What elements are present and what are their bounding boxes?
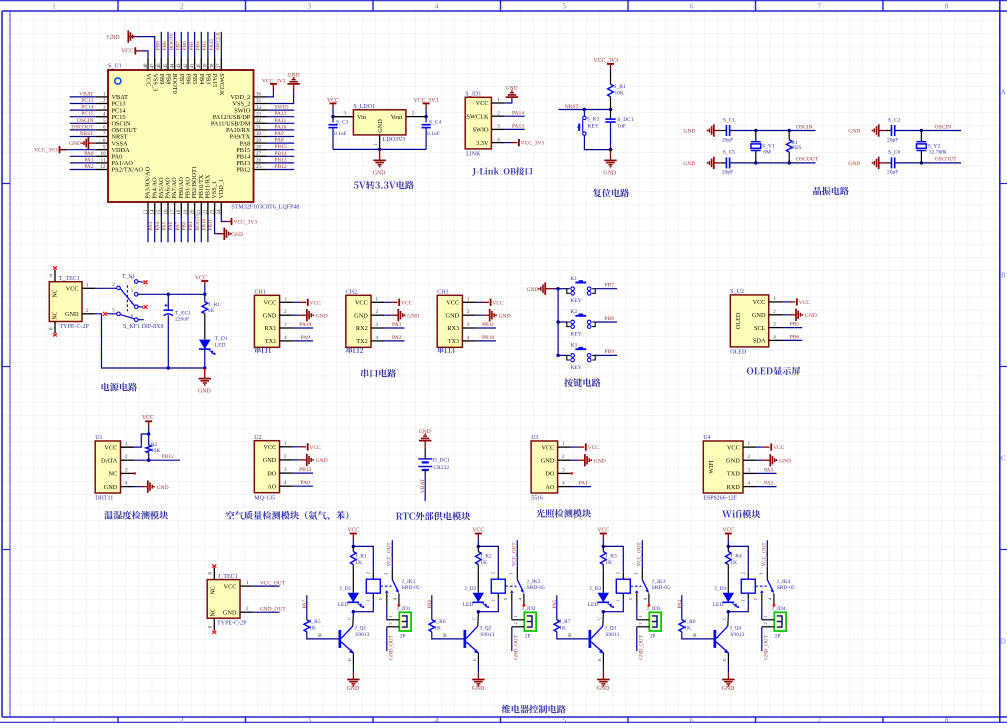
connector CH2 body xyxy=(346,295,371,347)
svg-text:PA9: PA9 xyxy=(274,131,284,137)
svg-text:VCC: VCC xyxy=(722,527,734,533)
U1 pin 42 PB6 xyxy=(187,57,189,70)
U3 pin 4 AO xyxy=(558,486,571,488)
U1 pin 25 PB12 xyxy=(254,169,267,171)
svg-text:VCC_OUT: VCC_OUT xyxy=(511,542,517,567)
U1 pin 24 VDD_1 xyxy=(220,202,222,215)
svg-text:CR232: CR232 xyxy=(434,465,450,471)
svg-text:5: 5 xyxy=(562,2,566,10)
S_U2 pin 2 GND xyxy=(769,314,782,316)
wire net GND_OUT xyxy=(252,611,279,613)
JD1 pin 3 SWIO xyxy=(491,128,504,130)
svg-text:GND: GND xyxy=(597,686,610,692)
wire relay common xyxy=(516,540,518,566)
connector S_U2 OLED body xyxy=(730,295,768,347)
svg-text:20pF: 20pF xyxy=(722,137,733,143)
svg-text:Vout: Vout xyxy=(391,114,403,121)
wire net PA3 xyxy=(756,472,776,474)
connector CH1 body xyxy=(254,295,279,347)
transistor J_Q3 S9013 xyxy=(589,630,592,648)
power VCC at CH2 pin 1 xyxy=(384,301,391,303)
wire net PA13 xyxy=(505,128,525,130)
wire OSCIN row xyxy=(730,130,816,132)
CH1 pin 4 TX1 xyxy=(280,340,293,342)
svg-text:RX1: RX1 xyxy=(264,325,276,332)
connector T_TEC1 TYPE-C body xyxy=(49,282,82,322)
svg-text:KEY: KEY xyxy=(570,332,581,338)
svg-text:22: 22 xyxy=(204,209,209,215)
LDO pin 2 xyxy=(406,116,426,118)
svg-text:GND: GND xyxy=(726,457,740,464)
wire OSCOUT row xyxy=(895,162,961,164)
svg-text:10K: 10K xyxy=(615,90,625,96)
svg-text:4: 4 xyxy=(435,2,439,10)
svg-text:S_C5: S_C5 xyxy=(723,150,735,156)
wire net PA1 xyxy=(70,162,96,164)
svg-text:AO: AO xyxy=(267,483,277,490)
svg-text:J_R2: J_R2 xyxy=(480,554,492,560)
pushbutton K3 KEY xyxy=(556,354,559,357)
svg-text:PB10: PB10 xyxy=(482,335,494,341)
pushbutton K1 KEY xyxy=(556,287,559,290)
capacitor S_C5 20pF xyxy=(721,162,727,164)
svg-text:D_DC1: D_DC1 xyxy=(433,458,450,464)
svg-text:VCC_3V3: VCC_3V3 xyxy=(593,58,618,64)
power VCC_3V3 at U1 pin 24 VDD_1 xyxy=(221,215,226,222)
svg-text:PB8: PB8 xyxy=(162,41,168,50)
relay contact 5 xyxy=(386,593,388,603)
LED J_D1 xyxy=(348,593,360,603)
svg-text:PC15: PC15 xyxy=(81,111,93,117)
resistor J_R4 1K xyxy=(727,546,729,551)
T_S1 contact 6 xyxy=(134,318,138,322)
svg-text:D: D xyxy=(1001,638,1006,646)
wire OSCOUT row xyxy=(730,162,816,164)
svg-text:2: 2 xyxy=(180,2,184,10)
caption light detection module xyxy=(536,509,591,518)
svg-text:GND: GND xyxy=(604,170,617,176)
wire ground bus under LDO xyxy=(333,148,426,150)
connector U2 MQ-135 body xyxy=(254,441,279,493)
svg-text:K1: K1 xyxy=(570,276,577,282)
U1 pin 44 BOOT0 xyxy=(174,57,176,70)
svg-text:26: 26 xyxy=(256,159,262,164)
resistor J_R6 1K xyxy=(429,620,435,632)
svg-text:VCC_OUT: VCC_OUT xyxy=(260,580,286,586)
svg-text:NRST: NRST xyxy=(565,104,580,110)
svg-text:GND: GND xyxy=(377,119,384,133)
U1 pin 21 PB10/TX xyxy=(200,202,202,215)
wire net PA8 xyxy=(267,142,294,144)
svg-text:GND: GND xyxy=(223,609,237,616)
T_S1 blade upper xyxy=(120,289,134,306)
svg-text:BOOT0: BOOT0 xyxy=(171,74,178,94)
wire net PB9 xyxy=(160,32,162,58)
J_JD1 pin 2 xyxy=(387,626,400,628)
J_JD4 pin 1 xyxy=(762,619,775,621)
svg-text:1K: 1K xyxy=(730,560,737,566)
svg-text:PB5: PB5 xyxy=(189,41,195,50)
svg-text:S_C1: S_C1 xyxy=(723,117,735,123)
svg-text:PA0: PA0 xyxy=(84,151,94,157)
svg-text:GND: GND xyxy=(288,72,300,78)
comment serial port 2 xyxy=(346,347,363,353)
U1 pin 9 VDDA xyxy=(96,149,108,151)
svg-text:S_Y1: S_Y1 xyxy=(762,143,775,149)
wire net PB3 xyxy=(207,32,209,58)
wire contact 5 to J_JD3 pin 1 xyxy=(636,604,638,620)
ground relay channel 1 xyxy=(352,673,354,680)
svg-text:LINK: LINK xyxy=(466,152,481,158)
svg-text:VCC: VCC xyxy=(799,300,811,306)
wire net PB6 xyxy=(782,339,802,341)
T_S1 blade lower xyxy=(120,314,134,319)
U1 pin 1 VCC xyxy=(121,446,134,448)
svg-text:8M: 8M xyxy=(763,150,771,156)
svg-text:CH3: CH3 xyxy=(437,290,448,296)
svg-text:28: 28 xyxy=(256,145,262,150)
svg-text:PC13: PC13 xyxy=(81,98,93,104)
svg-text:VCC_OUT: VCC_OUT xyxy=(386,542,392,567)
svg-text:GND: GND xyxy=(316,313,328,319)
ground at U2 pin 2 xyxy=(293,459,300,461)
U1 pin 23 VSS_1 xyxy=(214,202,216,215)
svg-text:LED: LED xyxy=(338,602,349,608)
crystal S_Y2 32.768k xyxy=(920,129,923,132)
svg-text:VCC_3V3: VCC_3V3 xyxy=(521,141,545,147)
ground relay channel 3 xyxy=(602,673,604,680)
svg-text:20: 20 xyxy=(190,209,195,215)
wire to relay coil xyxy=(603,546,623,572)
svg-text:31: 31 xyxy=(256,126,262,131)
wire pin1 to switch xyxy=(95,287,116,289)
wire transistor emitter xyxy=(477,653,479,665)
LED J_D2 xyxy=(473,593,485,603)
svg-text:J_JD3: J_JD3 xyxy=(647,606,661,612)
power VCC at U3 pin 1 xyxy=(571,446,578,448)
svg-text:0.1uF: 0.1uF xyxy=(334,131,347,137)
U1 pin 33 PA12/USB/DP xyxy=(254,116,267,118)
wire LED to ground bus xyxy=(204,349,206,368)
svg-text:PA14: PA14 xyxy=(512,110,524,116)
svg-text:PA10: PA10 xyxy=(299,322,311,328)
wire base resistor to base xyxy=(307,632,339,639)
relay dashed linkage xyxy=(755,585,766,587)
U1 pin 39 PB3 xyxy=(207,57,209,70)
wire net BOOT0 xyxy=(174,32,176,58)
svg-text:C: C xyxy=(472,617,477,620)
caption 5V to 3.3V circuit xyxy=(354,181,414,190)
power VCC_3V3 at JD1 pin 4 xyxy=(505,142,511,144)
pushbutton K2 KEY xyxy=(556,320,559,323)
power VCC at CH3 pin 1 xyxy=(476,301,483,303)
svg-text:VCC: VCC xyxy=(401,300,413,306)
svg-text:S_C2: S_C2 xyxy=(888,117,900,123)
wire Vout to VCC_3V3 xyxy=(425,108,427,117)
connector S_JD1 J-Link body xyxy=(465,97,491,149)
svg-text:VCC: VCC xyxy=(588,445,600,451)
wire to relay coil xyxy=(478,546,498,572)
svg-text:PB11: PB11 xyxy=(482,322,494,328)
no connect at U3 pin 3 xyxy=(571,472,574,475)
wire net PB13 xyxy=(267,162,294,164)
svg-text:GND: GND xyxy=(69,141,81,147)
wire net PA9 xyxy=(267,136,294,138)
svg-text:S_K1: S_K1 xyxy=(587,116,600,122)
svg-text:GND: GND xyxy=(499,313,511,319)
T_TEC1 shield stub bottom xyxy=(54,322,56,334)
wire base resistor to base xyxy=(432,632,464,639)
wire net PB13 xyxy=(293,472,313,474)
T_S1 contact 5 xyxy=(117,312,121,316)
wire net GND_OUT xyxy=(636,627,638,651)
svg-text:GND: GND xyxy=(407,313,419,319)
wire from key to ground bus xyxy=(584,135,610,149)
S_U2 pin 4 SDA xyxy=(769,339,782,341)
svg-text:PB1: PB1 xyxy=(188,221,194,230)
svg-text:GND: GND xyxy=(231,232,243,238)
svg-text:VCC: VCC xyxy=(66,286,79,293)
wire coil to LED cathode xyxy=(497,593,499,600)
svg-text:GND: GND xyxy=(805,313,817,319)
svg-text:35: 35 xyxy=(256,99,262,104)
resistor T_R1 1K xyxy=(204,294,206,302)
svg-text:PB6: PB6 xyxy=(182,41,188,50)
svg-text:39: 39 xyxy=(204,63,209,69)
svg-text:PB5: PB5 xyxy=(790,322,800,328)
svg-text:SDA: SDA xyxy=(753,338,766,345)
wire net VCC_OUT xyxy=(252,585,279,587)
svg-text:VCC: VCC xyxy=(446,300,459,307)
svg-text:PA1: PA1 xyxy=(579,481,589,487)
power VCC at U1 pin 48 xyxy=(142,51,149,57)
caption key circuit xyxy=(564,378,600,387)
wire net PC13 xyxy=(70,103,96,105)
svg-text:1K: 1K xyxy=(355,560,362,566)
no connect x at contact 1 xyxy=(144,280,148,284)
transistor J_Q2 S9013 xyxy=(464,630,467,648)
comment serial port 3 xyxy=(438,347,455,353)
U1 pin 16 PA6/AO xyxy=(167,202,169,215)
svg-text:7: 7 xyxy=(817,717,821,724)
power VCC at U4 pin 1 xyxy=(756,446,763,448)
ground at U1 pin 35 VSS_2 xyxy=(267,91,294,104)
svg-text:VCC: VCC xyxy=(263,300,276,307)
svg-text:B: B xyxy=(693,633,697,639)
svg-text:J_R6: J_R6 xyxy=(434,619,446,625)
svg-text:1: 1 xyxy=(52,2,56,10)
svg-text:11: 11 xyxy=(101,159,106,164)
U1 pin 26 PB13 xyxy=(254,162,267,164)
svg-text:18: 18 xyxy=(177,209,182,215)
svg-text:OSCIN: OSCIN xyxy=(796,124,813,130)
JD1 pin 1 VCC xyxy=(491,102,504,104)
capacitor S_C3 0.1uF xyxy=(332,117,334,123)
CH2 pin 2 GND xyxy=(371,314,384,316)
wire net PB1 xyxy=(187,215,189,242)
svg-text:S_Y2: S_Y2 xyxy=(928,143,941,149)
svg-text:PA2: PA2 xyxy=(764,481,774,487)
wire LED to transistor collector xyxy=(477,612,479,616)
wire contact 5 stub xyxy=(107,313,117,315)
U1 pin 36 VDD_2 xyxy=(254,96,267,98)
capacitor S_DC1 1uF xyxy=(610,110,612,120)
caption J-Link OB interface xyxy=(472,167,532,176)
U1 pin 10 PA0 xyxy=(96,155,108,157)
svg-text:OSCIN: OSCIN xyxy=(935,124,952,130)
CH1 pin 1 VCC xyxy=(280,301,293,303)
resistor S_R1 10K xyxy=(608,84,614,97)
svg-text:4: 4 xyxy=(435,717,439,724)
wire net PB5 xyxy=(782,327,802,329)
wire pin2 to ground bus xyxy=(95,314,205,368)
wire net PA15 xyxy=(214,32,216,58)
svg-text:J_D1: J_D1 xyxy=(340,586,352,592)
svg-text:SWCLK: SWCLK xyxy=(218,74,225,96)
svg-text:VCC: VCC xyxy=(727,444,740,451)
CH2 pin 1 VCC xyxy=(371,301,384,303)
svg-text:TXD: TXD xyxy=(727,471,740,478)
ground at JD1 pin 1 xyxy=(505,97,512,103)
svg-text:19: 19 xyxy=(184,209,189,215)
relay dashed linkage xyxy=(630,585,641,587)
U1 pin 4 GND xyxy=(121,486,134,488)
pushbutton S_K1 KEY xyxy=(583,116,586,119)
svg-text:SRD-05: SRD-05 xyxy=(652,585,670,591)
wire to relay coil xyxy=(353,546,373,572)
svg-text:PB3: PB3 xyxy=(202,41,208,50)
U1 pin 3 PC14 xyxy=(96,109,108,111)
svg-text:RX2: RX2 xyxy=(356,325,368,332)
svg-text:2P: 2P xyxy=(775,633,781,639)
wire LED to transistor collector xyxy=(602,612,604,616)
svg-text:OLED: OLED xyxy=(735,312,742,329)
wire net PA3 xyxy=(147,215,149,242)
wire VCC to Vin xyxy=(333,108,353,117)
svg-text:PB10: PB10 xyxy=(202,219,208,231)
svg-text:K2: K2 xyxy=(570,309,577,315)
svg-text:8: 8 xyxy=(945,2,949,10)
wire net PA10 xyxy=(293,327,313,329)
svg-text:3.3V: 3.3V xyxy=(476,140,489,147)
caption serial circuit xyxy=(361,369,396,377)
wire to key xyxy=(583,110,585,117)
svg-text:GND: GND xyxy=(594,458,606,464)
svg-text:PA2: PA2 xyxy=(392,335,402,341)
svg-text:S_DC1: S_DC1 xyxy=(617,117,633,123)
LED J_D4 xyxy=(723,593,735,603)
svg-text:S_R1: S_R1 xyxy=(614,84,626,90)
svg-text:NC: NC xyxy=(53,289,59,297)
caption air quality module xyxy=(226,511,349,520)
svg-text:1K: 1K xyxy=(480,560,487,566)
resistor J_R5 1K xyxy=(304,620,310,632)
svg-text:15: 15 xyxy=(157,209,162,215)
svg-text:0.1uF: 0.1uF xyxy=(427,131,440,137)
svg-text:LED: LED xyxy=(713,602,724,608)
svg-text:PA8: PA8 xyxy=(274,138,284,144)
svg-text:T_R1: T_R1 xyxy=(208,302,221,308)
svg-text:GND_OUT: GND_OUT xyxy=(260,606,287,612)
svg-text:U1: U1 xyxy=(95,435,102,441)
svg-text:T_D1: T_D1 xyxy=(215,336,228,342)
J_JD3 pin 1 xyxy=(637,619,650,621)
svg-text:J_D4: J_D4 xyxy=(715,586,727,592)
svg-text:43: 43 xyxy=(177,63,182,69)
U3 pin 1 VCC xyxy=(558,446,571,448)
battery D_DC1 CR232 xyxy=(424,447,426,459)
svg-text:SWCLK: SWCLK xyxy=(467,113,489,120)
caption relay control circuit xyxy=(502,705,566,714)
svg-text:20pF: 20pF xyxy=(722,170,733,176)
JD1 pin 4 3.3V xyxy=(491,142,504,144)
wire coil to LED cathode xyxy=(372,593,374,600)
U1 pin 19 PB1/AO xyxy=(187,202,189,215)
svg-text:41: 41 xyxy=(190,63,195,69)
wire coil to LED cathode xyxy=(747,593,749,600)
wire contact 3 to VCC rail xyxy=(138,293,205,295)
wire net PA0 xyxy=(70,155,96,157)
svg-text:VCC: VCC xyxy=(121,49,133,55)
svg-text:KEY: KEY xyxy=(570,298,581,304)
power VCC at U2 pin 1 xyxy=(293,446,300,448)
svg-text:13: 13 xyxy=(144,209,149,215)
U1 pin 8 VSSA xyxy=(96,142,108,144)
svg-text:PA6: PA6 xyxy=(427,599,433,608)
svg-text:47: 47 xyxy=(151,63,156,69)
svg-text:WIFI: WIFI xyxy=(708,460,715,473)
svg-text:CH1: CH1 xyxy=(254,290,265,296)
wire net PB8 xyxy=(595,321,617,323)
wire net PA5 xyxy=(160,215,162,242)
svg-text:44: 44 xyxy=(170,63,175,69)
wire net PB11 xyxy=(207,215,209,242)
T_S1 contact 1 xyxy=(134,280,138,284)
svg-text:S9013: S9013 xyxy=(730,632,744,638)
svg-text:S_U1: S_U1 xyxy=(108,64,122,70)
U1 pin 14 PA4/AO xyxy=(154,202,156,215)
svg-text:PA3: PA3 xyxy=(764,467,774,473)
svg-text:17: 17 xyxy=(170,209,175,215)
svg-text:GND: GND xyxy=(65,311,79,318)
T_TEC1 shield stub top xyxy=(54,270,56,282)
svg-text:J_R3: J_R3 xyxy=(605,554,617,560)
resistor J_R2 1K xyxy=(477,546,479,551)
wire net PB8 xyxy=(167,32,169,58)
svg-text:VCC: VCC xyxy=(224,583,237,590)
caption wifi module xyxy=(722,510,760,519)
svg-text:J_D3: J_D3 xyxy=(590,586,602,592)
svg-text:R2: R2 xyxy=(151,442,158,448)
wire contact 5 to J_JD1 pin 1 xyxy=(386,604,388,620)
svg-text:VCC: VCC xyxy=(753,299,766,306)
relay contact 4 xyxy=(648,593,650,604)
ground at U1 pin 8 VSSA xyxy=(88,142,95,144)
U1 pin 12 PA2/TX/AO xyxy=(96,169,108,171)
T_S1 contact 4 xyxy=(134,305,138,309)
svg-text:OLED: OLED xyxy=(730,350,747,356)
wire net PC14 xyxy=(70,109,96,111)
capacitor S_C1 20pF xyxy=(721,130,727,132)
svg-text:14: 14 xyxy=(151,209,156,215)
MCU U1 STM32F103C8T6 body xyxy=(108,70,254,202)
svg-text:B: B xyxy=(568,633,572,639)
svg-text:7: 7 xyxy=(817,2,821,10)
svg-text:S_C6: S_C6 xyxy=(888,150,900,156)
svg-text:LED: LED xyxy=(588,602,599,608)
wire net BOOT1 xyxy=(194,215,196,242)
J_TEC1 pin 1 VCC xyxy=(240,585,252,587)
